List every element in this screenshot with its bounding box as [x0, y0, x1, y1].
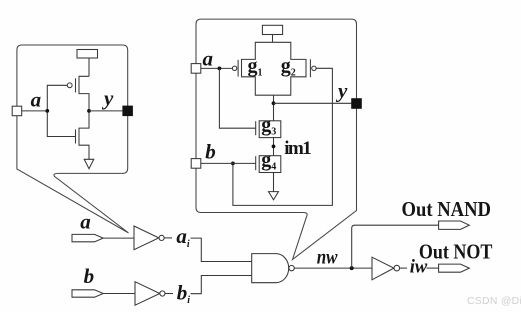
svg-text:b: b [84, 264, 95, 288]
pull-up network outline g1 g2 parallel PMOS body [242, 42, 307, 95]
wire net nw from X3 to inverter X4 [294, 267, 372, 269]
transistor M1 PMOS gate bar [75, 78, 77, 92]
svg-text:g3: g3 [261, 114, 276, 138]
wire input b to g4 gate [201, 162, 256, 164]
input flag b (gate-level schematic) [72, 290, 103, 297]
svg-text:im1: im1 [284, 138, 312, 159]
svg-text:a: a [80, 209, 91, 233]
svg-text:y: y [335, 79, 348, 103]
inverter X2 triangle (b) [135, 282, 160, 306]
callout box U1 inverter detail [17, 45, 129, 233]
wire net b_i to NAND X3 bottom input [191, 276, 252, 294]
svg-text:CSDN @Die: CSDN @Die [467, 296, 521, 307]
junction node a (inverter) [45, 109, 49, 113]
transistor g2 gate bar [309, 59, 311, 77]
transistor g4 gate bar [255, 156, 257, 170]
callout box U2 NAND transistor detail [196, 19, 357, 259]
output flag Out NOT [439, 264, 470, 272]
wire flag b to inverter X2 [103, 293, 135, 295]
wire net nw branch to Out NAND flag [352, 225, 439, 268]
port pad b (NAND cell input, open square on box edge) [191, 159, 201, 169]
transistor g3 NMOS body box [259, 121, 281, 138]
inverter X4 bubble [394, 265, 400, 271]
junction node y (NAND internal output) [272, 101, 276, 105]
transistor g3 gate bar [255, 121, 257, 135]
vdd supply rectangle (NAND cell) [262, 25, 282, 34]
wire input b to g2 gate (right side return path) [233, 68, 333, 205]
svg-text:bi: bi [177, 280, 191, 306]
transistor M2 NMOS gate bar [75, 129, 77, 143]
transistor g1 gate bar [237, 60, 239, 77]
junction node y (inverter output) [87, 109, 91, 113]
svg-text:a: a [31, 87, 41, 111]
svg-text:g2: g2 [281, 55, 296, 79]
port pad a (inverter input, open square on box edge) [12, 106, 22, 116]
wire flag a to inverter X1 [103, 237, 134, 239]
transistor g2 gate bubble [312, 66, 316, 70]
output flag Out NAND [439, 221, 470, 229]
junction node b (NAND cell) [231, 162, 235, 166]
inverter X1 bubble [159, 235, 164, 240]
port pad a (NAND cell input, open square on box edge) [191, 64, 201, 74]
NAND gate X3 body [252, 254, 289, 283]
port pad y (inverter output, filled square on box edge) [122, 106, 132, 117]
wire input a to g1 gate [201, 67, 232, 69]
inverter X1 triangle (a) [134, 226, 159, 250]
junction node im1 [272, 145, 276, 149]
port pad y (NAND cell output, filled square on box edge) [351, 98, 362, 109]
wire net a_i to NAND X3 top input [191, 238, 252, 261]
svg-text:y: y [101, 86, 114, 110]
svg-text:nw: nw [317, 247, 339, 268]
input flag a (gate-level schematic) [72, 234, 103, 241]
wire net iw to Out NOT flag [427, 267, 439, 269]
ground symbol (NAND cell) [269, 192, 279, 200]
transistor M1 PMOS gate bubble [67, 83, 72, 88]
junction node nw [350, 266, 354, 270]
svg-text:a: a [203, 46, 214, 70]
transistor M1 PMOS channel (inverter pull-up) [79, 76, 89, 111]
wire output node to pad y (NAND cell) [274, 102, 352, 104]
transistor g1 gate bubble [232, 66, 236, 70]
wire pull-up drain to output node [273, 95, 275, 121]
transistor g4 NMOS body box [259, 156, 281, 173]
wire net a_i from X1 output [164, 237, 172, 239]
wire gate loop from node a to M1 and M2 gates [47, 85, 75, 136]
vdd supply rectangle (inverter) [77, 50, 98, 59]
wire g3 source to g4 drain (node im1) [273, 138, 275, 156]
transistor M2 NMOS channel (inverter pull-down) [79, 111, 89, 159]
svg-text:ai: ai [176, 224, 190, 250]
NAND gate X3 bubble [289, 265, 294, 270]
svg-text:Out NOT: Out NOT [419, 239, 493, 263]
wire a down to g3 gate [219, 68, 255, 128]
wire output node to pad y [89, 110, 122, 112]
inverter X2 bubble [160, 291, 165, 296]
svg-text:g4: g4 [261, 149, 276, 173]
junction node a (NAND cell) [218, 67, 222, 71]
svg-text:g1: g1 [248, 55, 263, 79]
wire net b_i from X2 output [165, 293, 173, 295]
wire net iw from X4 output [400, 267, 407, 269]
wire input a to gate junction [22, 110, 48, 112]
wire VDD to pull-up network [272, 35, 274, 43]
wire g4 source to ground [273, 173, 275, 192]
wire VDD to PMOS M1 source [88, 58, 90, 76]
svg-text:b: b [205, 139, 216, 163]
svg-text:Out NAND: Out NAND [402, 197, 492, 221]
inverter X4 triangle (NOT) [372, 257, 394, 280]
ground symbol (inverter) [84, 159, 94, 168]
